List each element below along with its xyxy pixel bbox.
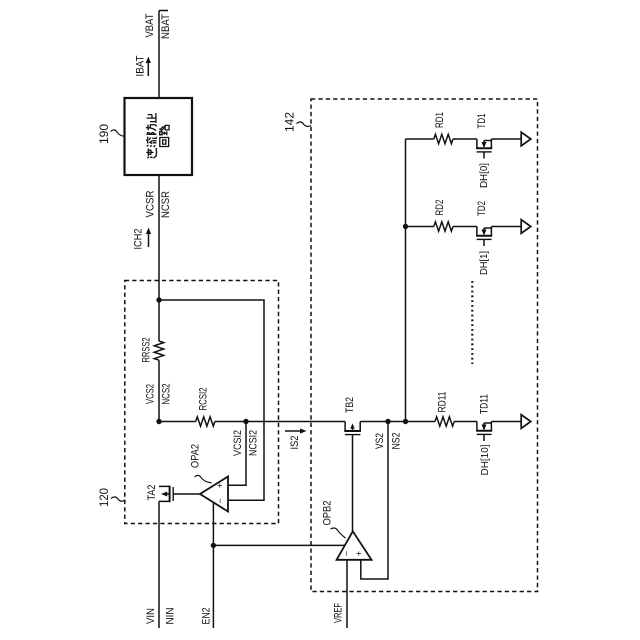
svg-text:TA2: TA2 [146,484,158,500]
svg-text:TD2: TD2 [476,201,488,216]
svg-text:+: + [215,483,225,488]
node VCSI2 label [232,430,244,456]
svg-text:RCSI2: RCSI2 [197,387,209,410]
svg-text:OPB2: OPB2 [321,500,333,525]
block 190 reverse-flow prevention circuit [125,98,193,175]
junction node row2 [403,224,408,229]
wire RD1 to TD1 [453,138,477,140]
svg-text:+: + [354,551,364,556]
svg-text:OPA2: OPA2 [189,444,201,468]
node VCSR label [144,190,156,217]
wire below 190 [158,175,160,300]
node NCS2 label [160,383,172,404]
svg-text:VIN: VIN [145,608,157,624]
wire to RRSS2 [158,300,160,341]
kanji line1 (gyaku-ryu-bou-shi) approximated strokes [146,113,156,158]
junction node VS2 [385,419,390,424]
svg-text:−: − [215,498,225,503]
op-amp OPB2 [337,531,372,560]
output arrow row2 [521,220,531,234]
svg-text:NIN: NIN [164,608,176,625]
svg-text:TD11: TD11 [478,394,490,414]
resistor RCSI2 [196,417,215,426]
svg-text:DH[10]: DH[10] [480,444,491,475]
op-amp OPA2 [200,477,228,512]
wire VS2 feedback to OPB2 plus [361,422,388,580]
transistor TD1 [476,139,492,159]
node VBAT label [144,13,156,37]
wire OPA2 output to TA2 gate [177,493,201,495]
node VREF label [332,603,344,623]
svg-text:VS2: VS2 [374,433,386,449]
wire TB2 gate to OPB2 output [352,435,354,532]
transistor TB2 [344,422,361,435]
kanji line2 (kai-ro) approximated strokes [159,125,169,146]
svg-text:VREF: VREF [332,603,344,623]
svg-text:120: 120 [97,488,111,507]
node NCSR label [160,191,172,218]
wire RRSS2 to node [158,360,160,421]
resistor RRSS2 [154,341,163,360]
label 142 [282,112,296,132]
svg-text:IS2: IS2 [289,435,301,449]
svg-text:EN2: EN2 [200,607,212,624]
node DH[1] label [479,251,490,275]
label OPB2 [321,500,333,525]
leader squiggle 142 [297,122,312,127]
node VCS2 label [144,384,156,404]
leader squiggle OPB2 [331,528,346,538]
node EN2 label [200,607,212,624]
svg-text:190: 190 [97,124,111,144]
svg-text:DH[0]: DH[0] [479,163,490,188]
svg-text:IBAT: IBAT [134,55,146,76]
dashed box 120 current sense block [125,281,279,524]
label OPA2 [189,444,201,468]
branch row 1 wire [406,138,434,140]
node VS2 label [374,433,386,449]
wire EN2 to OPB2 minus [213,544,345,546]
wire main below TA2 to VIN [158,501,160,628]
wire VCS2 to RCSI2 [159,421,196,423]
label TA2 [146,484,158,500]
wire EN2 [212,502,214,628]
svg-text:TB2: TB2 [344,397,356,413]
resistor RD11 [435,417,454,426]
svg-text:DH[1]: DH[1] [479,251,490,275]
label 190 [97,124,111,144]
svg-text:TD1: TD1 [476,113,488,128]
dashed box 142 driver block [311,99,538,592]
wire feedback to OPA2 minus [159,300,264,500]
svg-text:RD11: RD11 [436,391,448,412]
svg-text:−: − [341,551,351,556]
svg-text:NCSR: NCSR [160,191,172,218]
transistor TD2 [476,227,492,247]
svg-text:VCS2: VCS2 [144,384,156,404]
svg-text:VCSR: VCSR [144,190,156,217]
wire TD1 to output [491,138,521,140]
output arrow row3 [521,415,531,429]
svg-text:142: 142 [282,112,296,132]
wire TD2 to output [491,226,521,228]
svg-text:NBAT: NBAT [160,14,172,39]
label TB2 [344,397,356,413]
node NS2 label [390,432,402,449]
wire RCSI2 to TB2 [215,421,345,423]
svg-text:VCSI2: VCSI2 [232,430,244,456]
svg-text:NCS2: NCS2 [160,383,172,404]
current arrow ICH2 [132,228,151,250]
svg-text:RD1: RD1 [434,112,446,128]
leader squiggle OPA2 [195,475,212,483]
resistor RD1 [434,134,453,143]
node NCSI2 label [247,430,259,456]
wire RD2 to TD2 [453,226,477,228]
node VIN label [145,608,157,624]
resistor RD2 [434,222,453,231]
junction node EN2 [211,543,216,548]
svg-text:RRSS2: RRSS2 [140,337,152,362]
wire VREF [346,560,348,628]
junction node bus bottom [403,419,408,424]
transistor TD11 [476,422,492,442]
leader squiggle 120 [111,497,125,501]
svg-text:NS2: NS2 [390,432,402,449]
current arrow IBAT [134,55,151,76]
junction node VCS2 [156,419,161,424]
ellipsis dots [471,281,473,364]
wire RD11 to TD11 [454,421,477,423]
wire TB2 to RD11 [360,421,435,423]
current arrow IS2 [285,428,307,449]
transistor TA2 (PMOS pass) [159,486,177,503]
wire TD11 to output [491,421,521,423]
wire bus vertical to branches [405,139,407,422]
svg-text:VBAT: VBAT [144,13,156,37]
junction node VCSI2 [243,419,248,424]
svg-text:ICH2: ICH2 [132,228,144,249]
branch row 2 wire [406,226,434,228]
label 120 [97,488,111,507]
leader squiggle 190 [111,130,126,137]
svg-text:NCSI2: NCSI2 [247,430,259,456]
node DH[0] label [479,163,490,188]
wire VCSI2 to OPA2 plus [228,422,246,486]
wire main top VBAT [159,11,168,99]
node NIN label [164,608,176,625]
output arrow row1 [521,132,531,146]
junction node top of RRSS2 [156,297,161,302]
node DH[10] label [480,444,491,475]
node NBAT label [160,14,172,39]
svg-text:RD2: RD2 [434,199,446,215]
